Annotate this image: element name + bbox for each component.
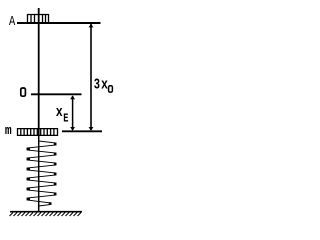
fixed support hatched box xyxy=(28,14,49,23)
spring coil xyxy=(27,141,56,206)
dimension line xE xyxy=(72,96,74,130)
ceiling line xyxy=(17,22,101,24)
svg-text:m: m xyxy=(5,123,12,138)
svg-text:x: x xyxy=(56,104,63,121)
dimension line 3x0 xyxy=(90,24,92,130)
svg-text:E: E xyxy=(63,113,68,126)
spring center wire xyxy=(38,136,40,211)
node 0 label xyxy=(21,88,26,96)
ground line xyxy=(10,211,82,213)
equilibrium 0 line xyxy=(31,93,82,95)
ground hatching xyxy=(10,213,82,217)
svg-text:3: 3 xyxy=(94,77,100,93)
svg-text:x: x xyxy=(101,77,108,94)
rod (wire from A down to mass) xyxy=(38,8,40,136)
spring tip hooks left xyxy=(27,148,30,201)
lower reference line xyxy=(62,130,102,132)
spring tip hooks right xyxy=(49,143,56,205)
mass hatched bar xyxy=(17,128,58,136)
svg-text:A: A xyxy=(9,15,16,30)
